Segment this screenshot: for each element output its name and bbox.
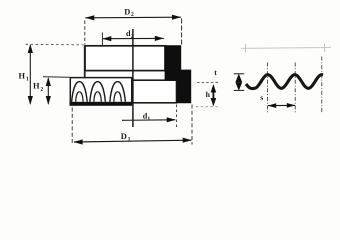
centre/extension line through body at x=132 (d1 left extension) bbox=[132, 29, 134, 127]
lower extension line (dotted, faint) bbox=[196, 106, 219, 108]
svg-text:t: t bbox=[214, 68, 217, 77]
wall connecting upper rectangle to bellows box bbox=[84, 46, 86, 78]
svg-text:2: 2 bbox=[40, 87, 43, 93]
svg-text:H: H bbox=[33, 82, 40, 91]
H1 top extension line (dotted) bbox=[26, 43, 85, 46]
ghost construction line (faint scan artifact) bbox=[241, 44, 331, 53]
svg-text:2: 2 bbox=[131, 12, 134, 18]
svg-text:2: 2 bbox=[131, 34, 134, 40]
dimension D1 arrow bbox=[74, 138, 192, 145]
crest centreline 3 (dash-dot) bbox=[321, 57, 323, 114]
D2 left extension line (dashed) bbox=[84, 21, 86, 45]
d2 left extension line bbox=[101, 33, 103, 47]
d1 right extension line (dotted) bbox=[176, 105, 178, 128]
dimension d2 arrow bbox=[102, 36, 164, 42]
bellows arch 1 small inner dome bbox=[76, 92, 83, 102]
bellows arch 2 dome bbox=[90, 82, 106, 102]
svg-text:1: 1 bbox=[26, 76, 29, 82]
svg-text:h: h bbox=[206, 90, 211, 99]
lower-right white rectangle (bore) bbox=[132, 80, 177, 103]
dimension H1 arrow bbox=[28, 44, 33, 105]
crest centreline 2 (dash-dot) bbox=[294, 63, 296, 114]
svg-text:1: 1 bbox=[147, 117, 150, 123]
D1 left extension line (dashed) bbox=[71, 108, 73, 145]
dimension D2 arrow bbox=[85, 15, 181, 21]
svg-text:1: 1 bbox=[128, 137, 131, 143]
bellows box thick bottom band bbox=[70, 102, 133, 106]
body upper rectangle bbox=[85, 46, 165, 71]
svg-text:D: D bbox=[121, 132, 127, 141]
bellows box (lower-left) bbox=[70, 78, 132, 104]
dimension h double arrow bbox=[211, 84, 217, 107]
extension line from step (dotted) bbox=[197, 81, 220, 83]
bellows arch 2 small inner dome bbox=[94, 92, 101, 102]
crest centreline 1 (dash-dot) bbox=[267, 63, 269, 113]
dimension d1 arrow (single head right) bbox=[122, 117, 176, 122]
dimension s arrow bbox=[268, 103, 296, 108]
svg-text:H: H bbox=[19, 71, 26, 80]
bellows arch 3 small inner dome bbox=[114, 92, 121, 102]
corrugation detail: thickness double arrow bbox=[235, 74, 242, 91]
svg-text:D: D bbox=[124, 7, 130, 16]
black filled stepped section (right body) bbox=[165, 45, 192, 103]
svg-text:s: s bbox=[260, 93, 263, 102]
bellows arch 1 dome bbox=[72, 82, 88, 102]
H2 top extension line bbox=[43, 76, 70, 78]
D2 right extension line bbox=[181, 19, 183, 45]
D1 right extension line (dashed) bbox=[191, 105, 193, 145]
corrugated sheet wave band bbox=[246, 75, 323, 89]
bellows arch 3 dome bbox=[110, 82, 126, 102]
detail top tick line bbox=[234, 73, 244, 75]
detail bottom tick line bbox=[234, 89, 244, 91]
dimension H2 arrow bbox=[46, 77, 51, 105]
